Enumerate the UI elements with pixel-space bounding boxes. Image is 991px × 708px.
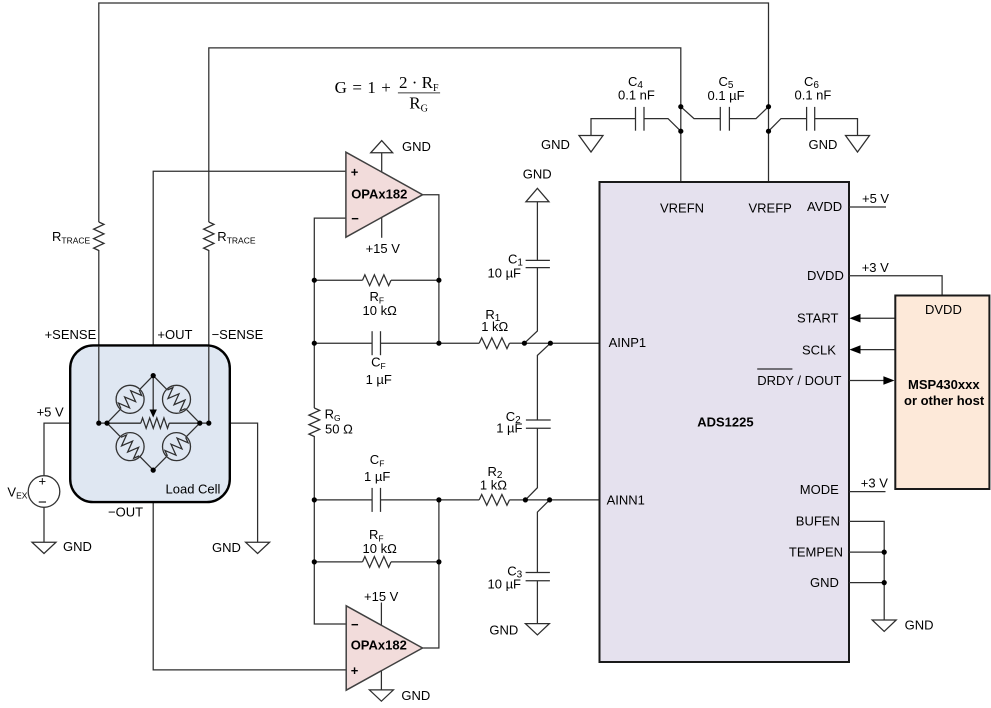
- junction RF1 right: [436, 278, 441, 283]
- load cell body: [70, 345, 230, 502]
- svg-text:+OUT: +OUT: [157, 327, 192, 342]
- wire RF2 feedback horizontal: [314, 561, 362, 563]
- strain gauge top-left: [110, 380, 150, 420]
- junction C3 top tap: [547, 497, 552, 502]
- svg-text:+15 V: +15 V: [366, 241, 401, 256]
- wire START from MSP430 with arrowhead into ADS: [849, 314, 895, 323]
- wire C2 branch lower jog: [525, 428, 537, 500]
- wire bridge excitation rail right: [169, 422, 209, 424]
- svg-text:10 kΩ: 10 kΩ: [363, 303, 398, 318]
- resistor RF1 10k zigzag: [363, 275, 392, 286]
- wire C5 left lead jog from VREFN: [681, 107, 721, 119]
- resistor R1 1k zigzag: [479, 338, 509, 349]
- wire SCLK from MSP430 with arrowhead into ADS: [849, 345, 895, 354]
- junction R2 out: [523, 497, 528, 502]
- wire bridge right to GND: [209, 423, 258, 542]
- wire C5 right lead jog to VREFP: [729, 107, 768, 119]
- svg-text:DRDY / DOUT: DRDY / DOUT: [757, 373, 841, 388]
- svg-text:+: +: [39, 474, 47, 489]
- svg-text:AINP1: AINP1: [609, 335, 647, 350]
- svg-text:GND: GND: [212, 540, 241, 555]
- ground symbol above U1 (pointing up): [371, 141, 393, 153]
- svg-text:TEMPEN: TEMPEN: [789, 544, 843, 559]
- svg-text:GND: GND: [489, 623, 518, 638]
- svg-text:GND: GND: [523, 166, 552, 181]
- wire RF1 feedback horizontal: [314, 279, 362, 281]
- svg-text:GND: GND: [810, 575, 839, 590]
- junction RF1 left: [312, 278, 317, 283]
- ground symbol below U2: [369, 690, 393, 701]
- wire bridge excitation rail left: [99, 422, 141, 424]
- svg-text:10 µF: 10 µF: [488, 265, 522, 280]
- svg-text:VREFN: VREFN: [660, 201, 704, 216]
- svg-text:RTRACE: RTRACE: [217, 229, 256, 246]
- bridge wiper arrow: [150, 376, 157, 418]
- wire BUFEN to ground bus: [849, 521, 884, 620]
- svg-text:−: −: [351, 211, 359, 226]
- svg-text:+: +: [351, 164, 359, 179]
- strain gauge bottom-left: [110, 427, 150, 467]
- svg-text:OPAx182: OPAx182: [351, 187, 407, 202]
- label RF2: [363, 527, 398, 556]
- strain gauge top-right: [157, 380, 197, 420]
- junction VREFN lower: [678, 129, 683, 134]
- junction bridge right vertex: [197, 421, 202, 426]
- junction CF1 left: [312, 341, 317, 346]
- wire +SENSE lower segment to bridge: [98, 250, 100, 423]
- wire +SENSE inside load cell: [98, 346, 100, 423]
- junction VREFP upper: [766, 104, 771, 109]
- wire inverting input bus: U1 - input down to U2 - input: [314, 218, 346, 408]
- wire +OUT from bridge top to op-amp U1 + input: [153, 171, 346, 375]
- junction CF2 right: [436, 497, 441, 502]
- label C1: [488, 252, 524, 281]
- resistor R2 1k zigzag: [479, 495, 509, 506]
- svg-text:G = 1 +: G = 1 +: [335, 78, 392, 97]
- wire C3 branch jog: [537, 500, 549, 573]
- resistor RTRACE right: [204, 222, 214, 251]
- wire CF1 feedback horizontal: [314, 342, 372, 344]
- ground symbol bridge right: [246, 542, 270, 553]
- wire bridge diagonals: [107, 376, 200, 471]
- junction CF2 left: [312, 497, 317, 502]
- wire C2 branch upper jog: [537, 343, 550, 420]
- op-amp U1 +15V lead: [381, 215, 383, 238]
- op-amp U1 OPAx182: [346, 152, 423, 237]
- svg-text:RTRACE: RTRACE: [52, 229, 91, 246]
- voltage source VEX: [28, 474, 60, 512]
- svg-text:AINN1: AINN1: [607, 492, 645, 507]
- junction bridge top node: [151, 373, 156, 378]
- svg-text:RG: RG: [409, 94, 428, 115]
- junction R1 out: [522, 341, 527, 346]
- svg-text:CF: CF: [370, 452, 385, 469]
- junction CF1 right: [436, 341, 441, 346]
- wire -SENSE inside load cell: [208, 346, 210, 423]
- label RG: [325, 407, 353, 437]
- label C3: [488, 564, 523, 592]
- ground symbol below digital pins: [872, 620, 896, 631]
- strain gauge bottom-right: [157, 427, 197, 467]
- svg-text:CF: CF: [371, 354, 386, 371]
- svg-text:GND: GND: [401, 688, 430, 703]
- svg-text:10 µF: 10 µF: [488, 576, 522, 591]
- wire GND pin to ground bus: [849, 582, 884, 584]
- junction VREFP lower: [766, 129, 771, 134]
- capacitor C6 0.1nF plates: [807, 107, 815, 131]
- wire +5V from source to bridge left: [44, 423, 99, 476]
- capacitor C1 10uF plates: [526, 260, 550, 267]
- svg-text:+5 V: +5 V: [37, 405, 64, 420]
- wire DVDD to MSP430: [849, 276, 942, 296]
- svg-text:0.1 µF: 0.1 µF: [708, 88, 745, 103]
- label C2: [496, 409, 522, 435]
- svg-text:DVDD: DVDD: [807, 268, 844, 283]
- svg-text:1 kΩ: 1 kΩ: [481, 319, 508, 334]
- host U4 MSP430xxx box: [895, 296, 989, 490]
- svg-text:+5 V: +5 V: [862, 191, 889, 206]
- label R2: [480, 464, 507, 493]
- junction bridge left vertex: [104, 421, 109, 426]
- capacitor C3 10uF plates: [526, 573, 550, 581]
- svg-text:1 kΩ: 1 kΩ: [480, 478, 507, 493]
- svg-text:or other host: or other host: [904, 393, 985, 408]
- wire TEMPEN to ground bus: [849, 551, 884, 553]
- label R1: [481, 307, 508, 334]
- label C5: [708, 74, 745, 103]
- svg-text:+: +: [351, 663, 359, 678]
- capacitor C2 1uF plates: [526, 420, 551, 428]
- capacitor CF2 plates: [372, 488, 380, 512]
- svg-text:DVDD: DVDD: [925, 302, 962, 317]
- wire VEX source bottom lead to GND: [43, 507, 45, 542]
- junction C2 top tap: [548, 341, 553, 346]
- wire RG lower segment: [314, 436, 346, 624]
- op-amp U1 ground lead: [381, 153, 383, 174]
- capacitor CF1 plates: [372, 331, 380, 355]
- svg-text:START: START: [797, 310, 838, 325]
- wire -SENSE lower segment to bridge: [208, 250, 210, 423]
- ground symbol above C1 (pointing up): [526, 188, 549, 202]
- wire U2 output to feedback column: [423, 500, 439, 648]
- svg-text:1 µF: 1 µF: [496, 420, 522, 435]
- op-amp U2 ground lead: [380, 668, 382, 690]
- junction +SENSE tap: [96, 421, 101, 426]
- wire MODE +3V stub: [849, 491, 886, 493]
- svg-text:10 kΩ: 10 kΩ: [363, 541, 398, 556]
- resistor RF2 10k zigzag: [363, 557, 392, 568]
- svg-text:VEX: VEX: [7, 485, 27, 501]
- svg-text:+3 V: +3 V: [862, 260, 889, 275]
- resistor RG 50 ohm zigzag: [309, 408, 320, 437]
- svg-text:0.1 nF: 0.1 nF: [795, 88, 832, 103]
- capacitor C4 left lead and GND stub: [591, 119, 636, 136]
- junction RF2 right: [436, 559, 441, 564]
- junction TEMPEN: [882, 550, 887, 555]
- op-amp U2 +15V lead: [380, 603, 382, 629]
- junction -SENSE tap: [206, 421, 211, 426]
- wire -SENSE net: vertical and horizontal to VREFN: [209, 48, 681, 222]
- resistor bridge output (horizontal zigzag between vertices): [107, 418, 200, 428]
- junction GND pin: [882, 580, 887, 585]
- svg-text:ADS1225: ADS1225: [697, 415, 753, 430]
- wire C6 right lead and GND stub: [815, 119, 858, 136]
- capacitor C4 0.1nF plates: [636, 107, 645, 131]
- svg-text:GND: GND: [541, 137, 570, 152]
- svg-text:0.1 nF: 0.1 nF: [618, 88, 655, 103]
- label RF1: [363, 289, 398, 318]
- pin DRDY/DOUT with overline on DRDY: [757, 369, 841, 388]
- junction VREFN upper: [678, 104, 683, 109]
- ground symbol right of C6: [846, 136, 870, 153]
- label C4: [618, 74, 655, 103]
- svg-text:BUFEN: BUFEN: [796, 513, 840, 528]
- ground symbol below VEX: [32, 542, 56, 553]
- svg-text:+3 V: +3 V: [861, 476, 888, 491]
- svg-text:Load Cell: Load Cell: [166, 482, 221, 497]
- svg-text:−: −: [38, 494, 47, 511]
- svg-text:VREFP: VREFP: [749, 201, 792, 216]
- ground symbol below C3: [525, 624, 549, 635]
- wire R1 to AINP1: [439, 342, 479, 344]
- svg-text:GND: GND: [809, 137, 838, 152]
- svg-text:GND: GND: [402, 139, 431, 154]
- svg-text:OPAx182: OPAx182: [351, 637, 407, 652]
- svg-text:GND: GND: [63, 539, 92, 554]
- wire DRDY/DOUT to MSP430 with arrowhead into MSP: [849, 376, 895, 385]
- wire C1 branch with jog: [536, 202, 538, 261]
- wire C4 right lead with jog to VREFN: [644, 119, 681, 132]
- svg-text:+15 V: +15 V: [364, 589, 399, 604]
- capacitor C5 0.1uF plates: [720, 107, 729, 131]
- wire U1 output to feedback column: [423, 195, 439, 344]
- svg-text:−: −: [351, 617, 359, 632]
- svg-text:1 µF: 1 µF: [364, 469, 390, 484]
- label CF2: [364, 452, 390, 484]
- wire C6 left lead jog from VREFP: [769, 119, 807, 132]
- svg-text:2 · RF: 2 · RF: [399, 73, 439, 94]
- ADC U3 ADS1225 box: [600, 182, 850, 662]
- wire +SENSE net: left vertical and top horizontal to VREFP: [99, 3, 769, 222]
- resistor RTRACE left: [94, 222, 104, 251]
- wire AVDD +5V stub: [849, 206, 886, 208]
- svg-text:+SENSE: +SENSE: [45, 327, 97, 342]
- label CF1: [366, 354, 392, 387]
- svg-text:AVDD: AVDD: [807, 199, 842, 214]
- svg-text:MSP430xxx: MSP430xxx: [908, 377, 980, 392]
- svg-text:−OUT: −OUT: [108, 505, 143, 520]
- ground symbol left of C4: [579, 136, 603, 153]
- wire -OUT from bridge bottom to op-amp U2 + input: [153, 470, 346, 670]
- formula gain equation: [335, 73, 441, 115]
- wire AINN1 horizontal: CF2 bank through R2 to ADS: [314, 499, 372, 501]
- svg-text:−SENSE: −SENSE: [212, 327, 264, 342]
- junction RF2 left: [312, 559, 317, 564]
- svg-text:50 Ω: 50 Ω: [325, 421, 353, 436]
- op-amp U2 OPAx182: [346, 606, 422, 690]
- svg-text:MODE: MODE: [800, 482, 839, 497]
- junction bridge bottom node: [151, 468, 156, 473]
- svg-text:SCLK: SCLK: [802, 343, 836, 358]
- svg-text:GND: GND: [905, 618, 934, 633]
- svg-text:1 µF: 1 µF: [366, 372, 392, 387]
- label C6: [795, 74, 832, 103]
